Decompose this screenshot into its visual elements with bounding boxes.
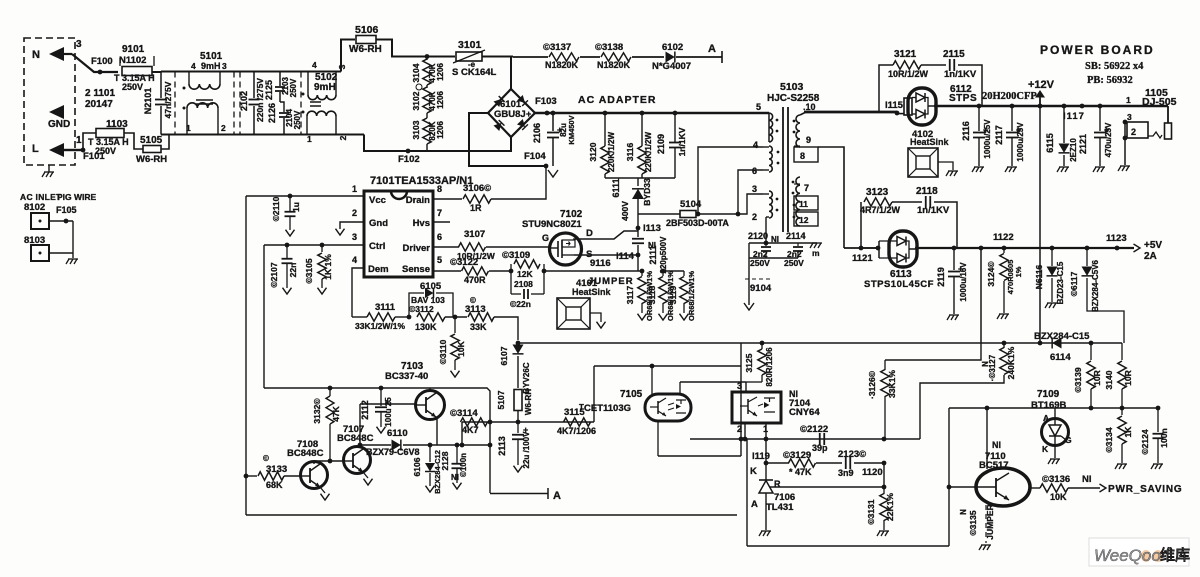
wire pin9 to 6113 riser [818, 147, 844, 248]
svg-text:3117: 3117 [625, 286, 635, 305]
svg-text:N*G4007: N*G4007 [652, 61, 691, 72]
secondary pin 10 wire [800, 112, 806, 115]
svg-text:N1820K: N1820K [545, 60, 579, 70]
svg-text:CET1103G: CET1103G [584, 403, 631, 414]
svg-text:1121: 1121 [852, 253, 873, 264]
capacitor 2117 1000u/25V [1010, 104, 1015, 109]
svg-text:1206: 1206 [436, 91, 445, 109]
svg-text:470R: 470R [464, 275, 486, 285]
svg-text:F102: F102 [398, 154, 420, 165]
svg-text:1n/1KV: 1n/1KV [944, 69, 977, 80]
svg-text:470u/25V: 470u/25V [1104, 122, 1113, 157]
wire CNY64 pin1 [765, 423, 767, 463]
capacitor 2111 220p500V NI [637, 228, 639, 237]
resistor 3124 470R0805 1% [1003, 248, 1005, 253]
svg-text:BC848C: BC848C [337, 433, 374, 444]
svg-text:BZD23-C15: BZD23-C15 [1056, 261, 1065, 304]
svg-text:1n/1KV: 1n/1KV [677, 127, 687, 156]
svg-text:CNY64: CNY64 [789, 407, 820, 418]
svg-text:39p: 39p [812, 443, 828, 453]
svg-text:2112: 2112 [360, 400, 370, 420]
svg-text:4: 4 [753, 140, 758, 150]
svg-text:©3110: ©3110 [438, 339, 448, 364]
svg-text:7109: 7109 [1037, 389, 1060, 400]
svg-text:PB: 56932: PB: 56932 [1087, 75, 1133, 86]
svg-text:N1102: N1102 [119, 55, 146, 66]
wire lower rail to 3115 [594, 365, 741, 367]
svg-text:2119: 2119 [936, 267, 946, 287]
wire source to 1114 [574, 254, 638, 256]
svg-text:250V: 250V [289, 78, 298, 97]
wire mid rail (opto supply) [518, 342, 1122, 344]
svg-text:3116: 3116 [625, 143, 635, 162]
svg-text:TL431: TL431 [766, 502, 794, 513]
svg-text:47K: 47K [331, 405, 341, 421]
wire filter bottom rail [161, 134, 364, 136]
capacitor 2123 3n9 [816, 462, 842, 464]
svg-text:250V: 250V [122, 82, 143, 92]
svg-text:BC337-40: BC337-40 [385, 371, 428, 382]
zener 6115 2EZ10 / 2121 [1062, 104, 1067, 109]
wire snubber right [934, 202, 957, 248]
svg-text:22u /100V: 22u /100V [522, 431, 531, 469]
svg-text:820R/1206: 820R/1206 [765, 347, 774, 387]
resistor 3117 OR68/1/2W1% [640, 269, 645, 274]
resistor 3139 10R [1089, 341, 1094, 346]
svg-text:2120: 2120 [748, 231, 768, 241]
wire drain to 1113 [574, 231, 638, 240]
svg-text:9101: 9101 [122, 44, 145, 55]
transformer core [782, 107, 784, 232]
svg-text:BYV26C: BYV26C [522, 362, 531, 393]
svg-text:9104: 9104 [750, 283, 772, 294]
zener 6106 BZX284-C12 [428, 443, 433, 448]
DC jack symbol [1167, 106, 1169, 123]
svg-text:2109: 2109 [656, 134, 666, 154]
svg-text:A: A [708, 43, 716, 55]
svg-text:1206: 1206 [436, 121, 445, 139]
svg-text:2113: 2113 [497, 436, 507, 456]
wire pin5 to 3122 [433, 270, 461, 272]
svg-text:3: 3 [352, 232, 357, 242]
svg-text:·3126©: ·3126© [867, 370, 877, 399]
svg-text:6106: 6106 [412, 457, 422, 476]
capacitor 470u/25V [1098, 104, 1103, 109]
svg-text:+5V: +5V [1144, 240, 1162, 251]
svg-text:3124©: 3124© [986, 261, 996, 287]
transformer secondary windings [796, 115, 800, 147]
capacitor 2125 220n/275V [253, 72, 255, 99]
svg-text:Gnd: Gnd [369, 218, 388, 229]
svg-text:©2110: ©2110 [271, 196, 281, 221]
svg-text:PIG WIRE: PIG WIRE [57, 192, 97, 202]
wire riser to opto box [740, 343, 742, 456]
svg-text:©3105: ©3105 [304, 258, 314, 283]
svg-text:1n/1KV: 1n/1KV [917, 205, 950, 216]
resistor chain 3104/3102/3103 junction [425, 54, 430, 59]
svg-text:3125: 3125 [744, 353, 754, 372]
svg-text:©3135: ©3135 [968, 510, 978, 535]
wire 3114/2113/3115 drive rail [462, 421, 594, 423]
svg-text:1123: 1123 [1106, 233, 1127, 244]
resistor 3127 240K1% NI [1002, 341, 1007, 346]
resistor 3104 470K 1206 [426, 57, 428, 61]
svg-text:3: 3 [752, 184, 757, 194]
svg-text:Dem: Dem [368, 264, 389, 275]
svg-text:2126: 2126 [267, 103, 277, 123]
capacitor 2109 1n/1KV [673, 111, 678, 116]
wire 3122 to 3109 [489, 270, 511, 272]
svg-text:N6116: N6116 [1034, 264, 1044, 289]
svg-text:9: 9 [806, 135, 811, 145]
svg-text:2114: 2114 [786, 231, 806, 241]
svg-text:4: 4 [191, 61, 196, 71]
wire 7110 base [949, 486, 977, 488]
transformer primary windings [768, 113, 770, 142]
wire heatsink 4102 ground [938, 162, 953, 170]
resistor 3120 220K/1/2W [603, 111, 608, 116]
svg-text:6111: 6111 [611, 178, 621, 197]
svg-text:220p500V: 220p500V [659, 236, 668, 274]
svg-text:AC INLET: AC INLET [20, 192, 62, 202]
svg-text:Driver: Driver [403, 243, 431, 254]
svg-text:2: 2 [752, 212, 757, 222]
svg-text:3: 3 [737, 381, 742, 391]
svg-text:7: 7 [437, 208, 442, 218]
svg-text:BZX284-C5V6: BZX284-C5V6 [1091, 259, 1100, 312]
svg-text:1: 1 [76, 135, 82, 146]
svg-text:I115: I115 [885, 100, 904, 111]
capacitor 2120 2n2 250V [765, 243, 767, 246]
svg-text:BZX79-C6V8: BZX79-C6V8 [366, 447, 420, 457]
resistor 3132 47K [328, 386, 333, 391]
wire 7108 collector [313, 461, 315, 464]
arrow pin N [49, 47, 64, 61]
node [453, 315, 458, 320]
svg-text:7105: 7105 [620, 389, 643, 400]
node F104 [544, 164, 549, 169]
fuse 1103 T3.15AH 250V [83, 133, 96, 150]
capacitor 2124 100n [1156, 406, 1161, 411]
arrow pin L [49, 143, 64, 157]
svg-text:2111: 2111 [648, 245, 658, 264]
svg-text:2123©: 2123© [838, 449, 866, 460]
wire to 5105 [124, 133, 143, 149]
svg-text:NI: NI [1082, 474, 1092, 485]
svg-text:1K: 1K [1123, 426, 1133, 438]
svg-text:4K7: 4K7 [462, 425, 479, 435]
wire pin3 Ctrl [264, 244, 364, 246]
svg-text:©3138: ©3138 [595, 42, 623, 53]
resistor 3119 OR68/1/2W1% [663, 270, 684, 272]
resistor 3110 10K [454, 317, 456, 333]
svg-text:8: 8 [800, 151, 805, 161]
svg-text:2A: 2A [1144, 251, 1157, 262]
svg-text:©6117: ©6117 [1069, 271, 1079, 296]
node F103 bridge output [535, 112, 605, 115]
svg-text:2115: 2115 [943, 49, 965, 60]
svg-text:7: 7 [804, 183, 809, 193]
svg-text:5107: 5107 [496, 390, 506, 409]
wire bottom-left frame [246, 514, 737, 516]
svg-text:6102: 6102 [662, 42, 683, 53]
svg-text:3107: 3107 [464, 229, 485, 240]
svg-text:33K: 33K [470, 322, 487, 332]
svg-text:400V: 400V [620, 201, 630, 221]
node 1119 [764, 461, 769, 466]
capacitor 2114 NI 2n2 250V [797, 243, 799, 246]
svg-text:1122: 1122 [993, 232, 1014, 243]
PWR_SAVING output [1100, 484, 1107, 492]
capacitor 2116 1000u/25V [977, 104, 982, 109]
svg-text:100u 25: 100u 25 [384, 397, 393, 427]
capacitor 2102 (dashed) [239, 72, 241, 135]
svg-text:3: 3 [76, 39, 82, 50]
svg-text:6107: 6107 [499, 346, 509, 365]
diode 6111 BYD33 400V [637, 178, 639, 186]
resistor 3116 220K/1/2W [640, 111, 645, 116]
svg-text:12K: 12K [517, 269, 533, 279]
wire 7110 collector riser [986, 408, 988, 469]
wire [580, 56, 600, 58]
svg-text:©3137: ©3137 [543, 42, 571, 53]
dual diode 6113 STPS10L45CF [889, 231, 917, 267]
capacitor 2107 22n [285, 243, 290, 248]
svg-text:STU9NC80Z1: STU9NC80Z1 [522, 219, 582, 230]
svg-text:STPS10L45CF: STPS10L45CF [864, 279, 934, 290]
svg-text:130K: 130K [415, 322, 437, 332]
wire bridge top to snubber row [513, 56, 548, 58]
wire 5104 to transformer pin3 [696, 194, 763, 214]
svg-text:240K1%: 240K1% [1006, 346, 1016, 379]
svg-text:2: 2 [338, 135, 348, 140]
wire CNY64 pin2 [744, 423, 746, 439]
svg-text:N: N [32, 49, 40, 61]
svg-text:2125: 2125 [264, 80, 274, 100]
wire 7103 base rail [360, 403, 417, 405]
node 1114 [636, 253, 641, 258]
wire to terminal A [676, 56, 722, 58]
svg-text:3106©: 3106© [463, 183, 491, 194]
svg-text:NI: NI [771, 235, 779, 244]
svg-text:F100: F100 [91, 56, 113, 67]
svg-text:3: 3 [222, 61, 227, 71]
svg-text:+: + [526, 109, 531, 119]
wire Ctrl feedback riser [263, 245, 265, 388]
capacitor 2126 / 2104 250V [280, 102, 284, 112]
snubber loop 3121 / 2115 [879, 65, 893, 113]
svg-text:NI: NI [992, 440, 1001, 450]
watermark WeeQoo [1089, 538, 1189, 566]
ground arrow F104 [548, 170, 558, 177]
svg-text:6: 6 [437, 232, 442, 242]
svg-text:2102: 2102 [239, 91, 249, 111]
wire 9104 jumper to ground [748, 258, 750, 283]
wire TL431 anode to ground [765, 493, 767, 530]
svg-text:©3136: ©3136 [1042, 474, 1070, 485]
wire TL431 ref [770, 486, 884, 488]
svg-text:K: K [750, 466, 757, 477]
wire opto 7105 connections [651, 366, 653, 394]
svg-text:6: 6 [752, 166, 757, 176]
svg-text:3123: 3123 [866, 187, 889, 198]
svg-text:A: A [1043, 413, 1049, 423]
svg-text:2118: 2118 [916, 186, 938, 197]
svg-text:OR68/1/2W1%: OR68/1/2W1% [687, 271, 696, 321]
svg-text:3102: 3102 [411, 91, 421, 110]
svg-text:2108: 2108 [514, 279, 533, 289]
wire transformer pin4 riser [698, 147, 763, 214]
wire snubber bottom [605, 177, 675, 179]
svg-text:G: G [1065, 435, 1072, 445]
svg-text:F104: F104 [524, 151, 546, 162]
svg-text:1%: 1% [1014, 266, 1023, 277]
svg-text:HeatSink: HeatSink [910, 137, 950, 147]
svg-text:3: 3 [1127, 112, 1132, 122]
snubber loop 3123 / 2118 [860, 202, 862, 248]
svg-text:2: 2 [352, 208, 357, 218]
resistor 3102 470K 1206 [426, 85, 428, 88]
wire terminals ground [72, 221, 74, 253]
svg-text:10R/1/2W: 10R/1/2W [888, 69, 929, 79]
svg-text:NI: NI [451, 473, 459, 482]
wire opto frame riser [746, 439, 748, 546]
svg-text:9mH: 9mH [201, 61, 221, 71]
svg-text:©3134: ©3134 [1104, 427, 1114, 452]
svg-text:20H200CFP: 20H200CFP [982, 91, 1037, 102]
svg-text:Ctrl: Ctrl [369, 241, 385, 252]
svg-text:Drain: Drain [406, 195, 430, 206]
wire 3101 to bridge top [482, 56, 513, 58]
svg-text:1: 1 [307, 134, 312, 144]
wire 7107 base to 7108 collector [314, 460, 344, 462]
wire 7108 emitter ground [320, 487, 325, 493]
svg-text:1120: 1120 [862, 467, 883, 478]
svg-text:12: 12 [799, 215, 809, 225]
resistor 5107 W6-RH [514, 390, 522, 411]
svg-text:5: 5 [756, 102, 761, 112]
capacitor 2106 82u KM450V [552, 113, 554, 131]
wire 5106 to 3101 row [376, 40, 455, 57]
wire +12V output rail [934, 105, 1168, 108]
node 1117 [1080, 104, 1085, 109]
svg-text:D: D [586, 228, 593, 239]
svg-text:47n/275V: 47n/275V [163, 81, 173, 118]
svg-text:220K/1/2W: 220K/1/2W [644, 132, 653, 172]
svg-text:8: 8 [437, 184, 442, 194]
bridge rectifier 6101 GBU8J [510, 57, 512, 90]
svg-text:I119: I119 [752, 451, 770, 462]
svg-text:3121: 3121 [894, 49, 917, 60]
capacitor 2119 1000u/16V [952, 246, 957, 251]
svg-text:1000u/25V: 1000u/25V [983, 119, 992, 159]
svg-text:100n: 100n [1159, 428, 1169, 447]
svg-text:4: 4 [312, 60, 317, 70]
svg-text:S CK164L: S CK164L [452, 67, 497, 78]
svg-text:©3112: ©3112 [409, 304, 434, 314]
wire filter top rail [161, 71, 341, 73]
svg-text:Hvs: Hvs [413, 218, 430, 229]
wire 7107 collector riser [359, 404, 361, 447]
svg-text:3104: 3104 [411, 63, 421, 82]
arrow pin GND [49, 105, 64, 119]
wire pin2 Gnd [340, 222, 364, 229]
svg-text:10K: 10K [1050, 492, 1067, 502]
svg-text:GND: GND [48, 119, 70, 130]
svg-text:Vcc: Vcc [369, 195, 386, 206]
svg-text:4: 4 [352, 255, 357, 265]
resistor 3140 10R [1121, 343, 1123, 360]
svg-text:* 47K: * 47K [789, 467, 812, 477]
svg-text:POWER BOARD: POWER BOARD [1040, 43, 1155, 57]
svg-text:7101TEA1533AP/N1: 7101TEA1533AP/N1 [370, 175, 473, 187]
svg-text:3119: 3119 [668, 286, 678, 305]
zener 6116 BZD23-C15 [1050, 246, 1055, 251]
node 1113 [636, 226, 641, 231]
svg-text:维库: 维库 [1160, 546, 1190, 564]
svg-text:2117: 2117 [994, 125, 1004, 145]
wire filter to F102 [364, 135, 440, 152]
svg-text:2106: 2106 [532, 123, 542, 143]
svg-text:AC ADAPTER: AC ADAPTER [578, 94, 656, 106]
wire fuse to filter [152, 71, 161, 73]
node 1121 [859, 246, 864, 251]
capacitor 2112 100u 25 [379, 386, 384, 391]
zener 6117 BZX284-C5V6 [1085, 246, 1090, 251]
svg-text:©2107: ©2107 [269, 262, 279, 287]
svg-text:3111: 3111 [375, 302, 396, 313]
svg-text:2116: 2116 [961, 121, 971, 141]
wire bottom-mid frame [747, 545, 949, 547]
node [395, 316, 409, 318]
svg-text:GBU8J: GBU8J [494, 109, 526, 120]
svg-text:6115: 6115 [1045, 133, 1055, 153]
wire drain node to 5104 [638, 213, 680, 215]
svg-text:3103: 3103 [411, 120, 421, 139]
svg-text:1000u/16V: 1000u/16V [959, 262, 968, 302]
svg-text:HeatSink: HeatSink [572, 287, 612, 297]
svg-text:33K1%: 33K1% [887, 370, 897, 398]
svg-text:1000u/25V: 1000u/25V [1016, 122, 1025, 162]
wire +12V riser down to 6114 net [1039, 106, 1041, 343]
svg-text:33K1/2W/1%: 33K1/2W/1% [355, 321, 406, 331]
svg-text:Sense: Sense [402, 264, 430, 275]
svg-text:2EZ10: 2EZ10 [1069, 138, 1078, 162]
svg-text:A: A [751, 499, 758, 510]
svg-text:10R: 10R [1123, 370, 1133, 386]
svg-text:©: © [263, 454, 269, 463]
wire pwr rail [949, 407, 1158, 409]
svg-text:I117: I117 [1063, 111, 1085, 122]
wire sense to source node 1114 [544, 270, 642, 272]
wire 5105 to filter bottom [161, 135, 169, 150]
wire CNY64 pin3 [745, 382, 747, 392]
svg-text:BYD33: BYD33 [642, 178, 652, 206]
capacitor 2101 47n/275V [160, 72, 162, 99]
svg-text:3101: 3101 [458, 39, 482, 51]
svg-text:68K: 68K [266, 480, 283, 490]
svg-text:10K: 10K [456, 340, 466, 356]
ground chassis of connector [48, 165, 50, 172]
svg-text:SB: 56922 x4: SB: 56922 x4 [1085, 61, 1144, 72]
fuse 1102 T3.15AH 250V [98, 70, 103, 75]
svg-text:10R: 10R [1092, 370, 1102, 386]
svg-text:3132©: 3132© [312, 398, 322, 424]
wire transformer pin6 riser [738, 170, 763, 214]
wire N to fuse 1102 [72, 54, 118, 72]
wire connector pins to ground [1123, 120, 1128, 125]
svg-text:5106: 5106 [355, 24, 379, 36]
